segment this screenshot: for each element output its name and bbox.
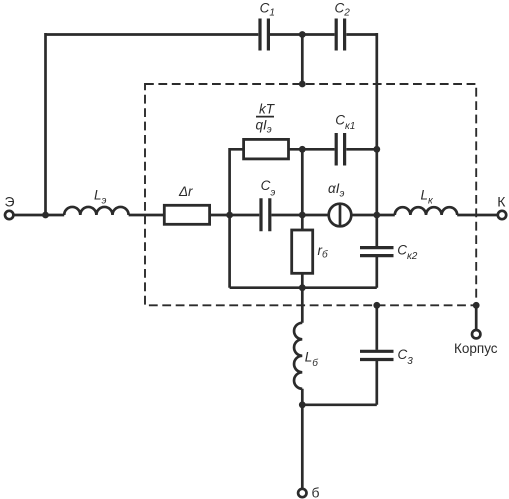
svg-text:C3: C3 xyxy=(398,347,414,367)
svg-text:Cэ: Cэ xyxy=(261,178,276,199)
svg-text:К: К xyxy=(497,193,506,209)
svg-text:Lэ: Lэ xyxy=(94,187,107,206)
svg-text:Э: Э xyxy=(5,193,15,209)
svg-text:kT: kT xyxy=(259,101,276,116)
svg-text:C1: C1 xyxy=(260,0,275,18)
svg-text:б: б xyxy=(312,484,320,499)
svg-text:Cк2: Cк2 xyxy=(397,242,417,262)
svg-text:Lк: Lк xyxy=(421,188,435,207)
svg-text:Cк1: Cк1 xyxy=(335,112,355,131)
svg-text:αIэ: αIэ xyxy=(328,181,344,200)
svg-text:rб: rб xyxy=(318,243,329,261)
svg-text:Lб: Lб xyxy=(305,350,319,370)
svg-text:Корпус: Корпус xyxy=(454,341,498,356)
svg-text:C2: C2 xyxy=(335,0,351,18)
svg-text:qIэ: qIэ xyxy=(256,118,272,136)
svg-text:Δr: Δr xyxy=(178,184,193,199)
